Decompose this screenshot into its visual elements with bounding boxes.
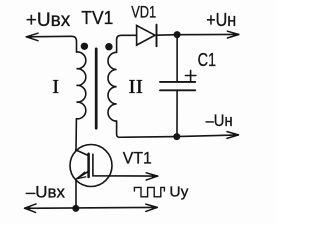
node output +Un arrow (right-pointing) [227, 31, 238, 38]
transistor VT1 base bar [87, 154, 90, 177]
svg-text:Uу: Uу [169, 183, 188, 200]
transistor VT1 circle [70, 145, 112, 187]
svg-text:+Uн: +Uн [206, 10, 236, 30]
junction dot bottom (C1 tap) [173, 133, 180, 140]
capacitor C1 bottom plate [160, 89, 195, 91]
control input lower arrowhead (right-pointing) [146, 204, 157, 211]
transistor VT1 collector diagonal [76, 150, 89, 156]
wire primary winding bottom to transistor collector [75, 119, 77, 151]
svg-text:I: I [52, 76, 59, 98]
wire secondary winding bottom to output rail [117, 121, 239, 137]
phasing dot secondary [105, 43, 112, 50]
transformer core [95, 49, 98, 129]
wire emitter down to bottom rail junction [75, 180, 77, 208]
capacitor C1 top plate [160, 81, 195, 83]
svg-text:II: II [128, 76, 143, 98]
junction dot top (C1 tap) [174, 31, 181, 38]
capacitor C1 polarity plus sign [185, 70, 195, 80]
svg-text:–Uн: –Uн [206, 112, 233, 130]
transistor VT1 base lead with L-bend to control arrow [93, 154, 158, 176]
wire secondary top stub to diode [117, 35, 137, 52]
transistor VT1 emitter with arrow [77, 171, 89, 179]
diode VD1 cathode bar [156, 25, 158, 47]
wire junction down to capacitor C1 [176, 35, 178, 81]
svg-text:TV1: TV1 [81, 7, 113, 28]
node output -Un arrow (right-pointing) [227, 132, 238, 139]
control input upper arrowhead (right-pointing) [146, 173, 157, 180]
svg-text:+Uвх: +Uвх [26, 9, 71, 31]
svg-text:–Uвх: –Uвх [26, 183, 66, 201]
wire bottom rail with -Uvx arrow (left-pointing) [25, 206, 158, 209]
diode VD1 triangle [137, 26, 155, 46]
wire diode to +Un arrow [157, 33, 239, 36]
node +Uvx input arrow (left-pointing) [26, 33, 77, 52]
phasing dot primary [81, 43, 88, 50]
svg-text:C1: C1 [198, 50, 217, 70]
junction dot bottom-left (emitter to rail) [72, 205, 79, 212]
svg-text:VD1: VD1 [131, 3, 156, 21]
wire capacitor to bottom output rail [176, 90, 178, 136]
transformer TV1 primary winding I [77, 52, 86, 119]
transformer TV1 secondary winding II [108, 52, 117, 121]
svg-text:VT1: VT1 [123, 149, 152, 167]
control signal Uy square wave symbol [134, 187, 164, 196]
